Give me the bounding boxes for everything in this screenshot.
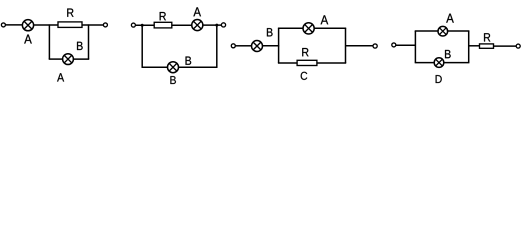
wire vertical right of box	[345, 28, 347, 63]
wire	[136, 24, 155, 26]
choice label D	[436, 75, 442, 83]
terminal right (circuit B)	[221, 23, 225, 27]
circuit option B	[131, 7, 225, 84]
label B (lamp B)	[186, 57, 192, 65]
lamp B (bottom branch)	[434, 58, 444, 68]
label R	[302, 48, 308, 56]
resistor R (bottom branch)	[297, 60, 317, 65]
label B (lamp B)	[77, 42, 83, 50]
wire	[34, 24, 58, 26]
lamp A (series)	[22, 20, 33, 31]
lamp B (parallel branch)	[168, 62, 179, 73]
lamp B (parallel branch)	[63, 54, 74, 65]
label B (lamp B)	[445, 50, 451, 58]
choice label A	[57, 73, 64, 81]
wire bottom left	[142, 66, 168, 68]
junction dot right	[215, 24, 218, 27]
wire	[203, 24, 222, 26]
wire vertical left branch	[141, 25, 143, 67]
wire bottom branch left	[278, 62, 297, 64]
terminal left (circuit C)	[231, 44, 235, 48]
wire bottom branch right	[444, 62, 470, 64]
wire bottom branch right	[317, 62, 346, 64]
choice label C	[301, 72, 308, 80]
label A (lamp A)	[24, 35, 32, 44]
lamp B (series)	[252, 41, 263, 52]
wire vertical left of box	[278, 28, 280, 63]
terminal right (circuit C)	[373, 44, 377, 48]
wire vertical right of box	[468, 31, 470, 63]
wire vertical left of box	[414, 31, 416, 63]
label A (lamp A)	[193, 7, 201, 16]
circuit option D	[392, 14, 520, 83]
resistor R	[154, 22, 172, 28]
wire bottom right	[73, 58, 89, 60]
wire top branch left	[278, 27, 303, 29]
wire bottom right	[179, 66, 218, 68]
terminal right (circuit A)	[103, 23, 107, 27]
label A (lamp A)	[446, 14, 454, 23]
lamp A (top branch)	[438, 26, 448, 36]
label R	[160, 12, 166, 20]
resistor R	[480, 44, 494, 48]
resistor R	[58, 22, 82, 28]
wire	[396, 44, 416, 46]
wire bottom branch left	[415, 62, 435, 64]
wire	[346, 45, 373, 47]
label R	[67, 9, 73, 17]
wire top branch right	[448, 30, 470, 32]
label B (lamp B)	[267, 28, 273, 36]
wire	[236, 45, 252, 47]
terminal left (circuit A)	[1, 23, 5, 27]
wire vertical right branch	[88, 24, 90, 59]
wire	[82, 24, 103, 26]
circuit option A	[1, 9, 107, 82]
choice label B	[170, 76, 176, 84]
junction dot left	[141, 24, 144, 27]
terminal left (circuit D)	[392, 43, 396, 47]
lamp A (top branch)	[303, 23, 314, 34]
wire	[263, 45, 280, 47]
label R	[484, 33, 490, 41]
terminal right (circuit D)	[516, 44, 520, 48]
wire vertical left branch	[48, 24, 50, 59]
wire	[494, 45, 517, 47]
wire top branch left	[415, 30, 438, 32]
label A (lamp A)	[321, 15, 329, 24]
terminal left (circuit B)	[131, 23, 135, 27]
wire	[469, 45, 480, 47]
circuit option C	[231, 15, 377, 80]
wire	[6, 24, 23, 26]
wire top branch right	[314, 27, 346, 29]
lamp A (series)	[192, 20, 203, 31]
wire	[172, 24, 192, 26]
wire vertical right branch	[216, 25, 218, 67]
wire bottom left	[49, 58, 63, 60]
